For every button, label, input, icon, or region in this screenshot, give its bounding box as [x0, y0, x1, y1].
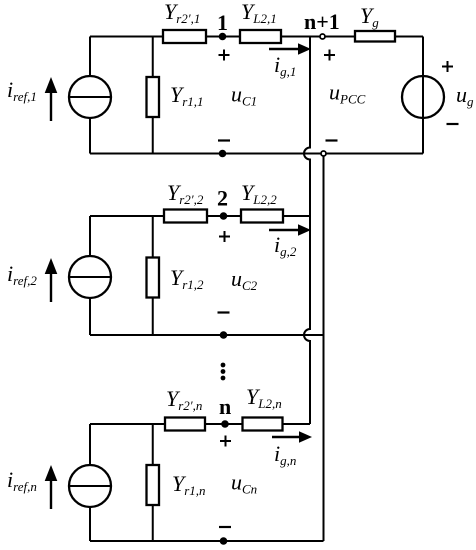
svg-text:n: n	[219, 394, 231, 419]
junction dot row2 bottom	[220, 331, 228, 339]
admittance Y_r2',1	[163, 30, 206, 43]
minus u_Cn	[219, 526, 231, 528]
admittance Y_r2',2	[164, 210, 207, 223]
admittance Y_r2',n	[165, 418, 205, 431]
current source In	[69, 465, 111, 507]
wire Y_r1,1 branch	[152, 37, 154, 154]
junction dot row3 bottom	[220, 537, 228, 545]
admittance Y_r1,n	[147, 465, 160, 505]
admittance Y_L2,n	[243, 418, 283, 431]
arrow i_ref,1	[45, 77, 58, 121]
admittance Y_g	[355, 31, 395, 42]
admittance Y_r1,2	[147, 258, 160, 298]
minus u_C1	[218, 139, 230, 141]
minus u_g	[447, 123, 459, 125]
node 2	[220, 212, 228, 220]
ellipsis dots	[221, 363, 226, 381]
arrow i_ref,2	[45, 258, 58, 302]
current source I2	[69, 256, 111, 298]
plus u_g	[442, 61, 453, 72]
wire Y_r1,2 branch	[152, 216, 154, 335]
arrow i_g,1	[269, 43, 311, 54]
node n	[221, 420, 229, 428]
plus u_C2	[219, 231, 230, 242]
minus u_PCC	[326, 139, 338, 141]
arrow i_g,n	[272, 431, 312, 442]
arrow i_g,2	[269, 224, 311, 235]
wire row2 left rail	[89, 216, 91, 335]
wire row3 bottom	[90, 540, 324, 542]
wire Y_r1,n branch	[152, 424, 154, 541]
voltage source u_g	[402, 76, 444, 118]
minus u_C2	[218, 311, 230, 313]
wire row2 top	[90, 215, 310, 217]
node 1	[219, 33, 227, 41]
wire row1 left rail	[89, 37, 91, 154]
svg-text:n+1: n+1	[304, 9, 340, 34]
wire row3 top	[90, 423, 310, 425]
current source I1	[69, 76, 111, 118]
wire row2 bottom	[90, 334, 324, 336]
admittance Y_L2,1	[240, 30, 281, 43]
grid terminal circle	[321, 151, 326, 156]
plus u_C1	[219, 50, 230, 61]
svg-text:1: 1	[217, 10, 228, 35]
admittance Y_r1,1	[147, 77, 160, 117]
junction dot row1 bottom	[219, 150, 227, 158]
arrow i_ref,n	[45, 465, 58, 509]
wire row1 bottom	[90, 153, 423, 155]
svg-text:2: 2	[217, 186, 228, 211]
wire row1 top	[90, 36, 423, 38]
wire node n+1 bus with crossover hops	[304, 37, 310, 425]
wire row3 left rail	[89, 424, 91, 541]
admittance Y_L2,2	[241, 210, 283, 223]
wire return bus	[323, 154, 325, 542]
node n+1 terminal	[320, 34, 325, 39]
plus u_PCC	[324, 50, 335, 61]
wire grid branch right rail	[422, 37, 424, 154]
plus u_Cn	[220, 436, 231, 447]
